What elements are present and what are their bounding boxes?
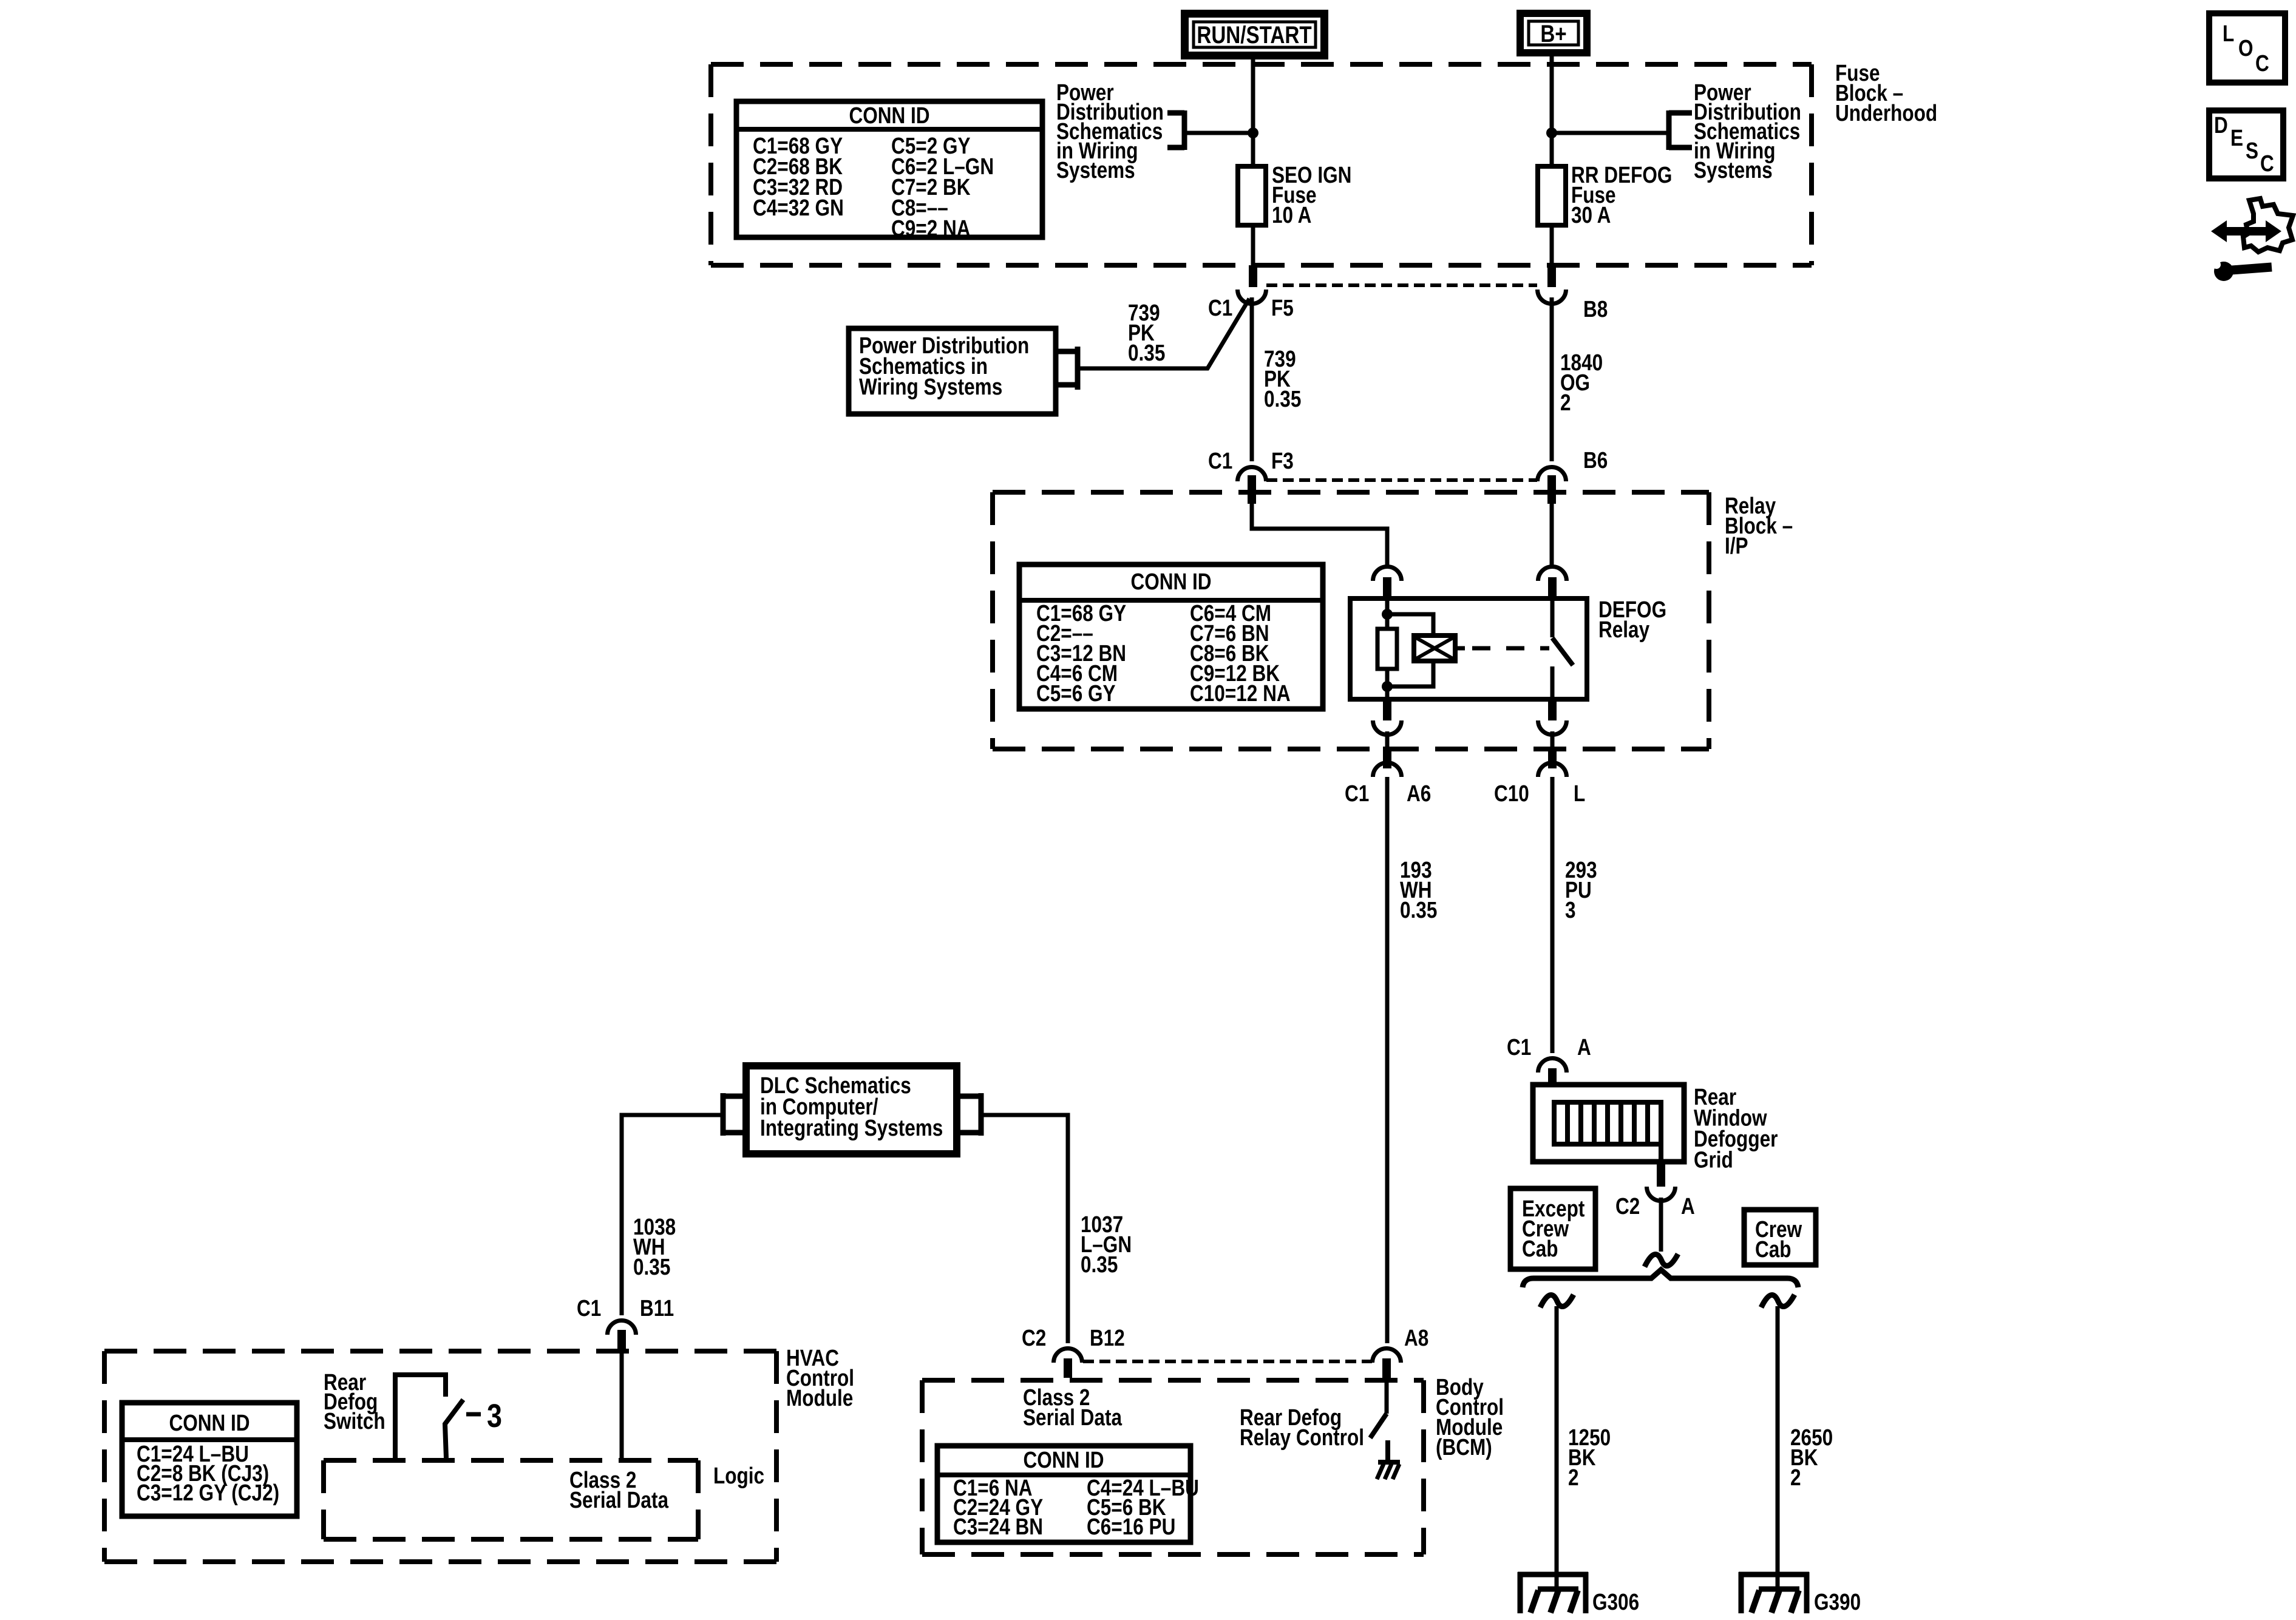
label Body Control Module (BCM) (1436, 1374, 1504, 1460)
svg-text:Wiring Systems: Wiring Systems (859, 374, 1002, 399)
DESC box (2209, 110, 2283, 178)
junction dot right (1546, 127, 1557, 138)
wire 1037 L-GN 0.35 (981, 1115, 1068, 1343)
relay block CONN ID table (1019, 564, 1323, 709)
box DLC Schematics in Computer/Integrating Systems (746, 1066, 957, 1154)
svg-text:A: A (1681, 1193, 1695, 1219)
BCM switch blade (1370, 1414, 1387, 1438)
svg-text:0.35: 0.35 (1264, 386, 1301, 412)
relay coil (box with X) (1414, 635, 1455, 661)
label C1 / A (1507, 1034, 1591, 1060)
svg-text:C1: C1 (1208, 295, 1232, 320)
wire 1250 BK 2 (1555, 1306, 1559, 1589)
junction dot relay bottom (1382, 681, 1393, 692)
wire 293 PU 3 (1550, 777, 1555, 1053)
wire 739 PK branch (horizontal + diagonal) (1078, 299, 1249, 368)
label C1 / A6 (1345, 781, 1431, 806)
label G390 (1814, 1589, 1861, 1615)
svg-text:Serial Data: Serial Data (569, 1487, 669, 1513)
wire relay 85 to block edge (1385, 731, 1390, 748)
relay pin 87 connector (cup) (1538, 699, 1567, 734)
connector C10 L (dome) (1538, 747, 1567, 777)
svg-text:B11: B11 (640, 1295, 674, 1321)
label Power Distribution Schematics in Wiring Systems (right) (1694, 80, 1801, 183)
svg-text:CONN ID: CONN ID (1023, 1447, 1104, 1473)
svg-text:C1: C1 (1345, 781, 1369, 806)
alternatives brace (1523, 1270, 1798, 1287)
fuse block CONN ID table (736, 101, 1042, 242)
bracket left of DLC box (723, 1093, 746, 1136)
label Logic (713, 1463, 764, 1488)
svg-text:C3=12 GY (CJ2): C3=12 GY (CJ2) (137, 1480, 279, 1505)
svg-text:3: 3 (487, 1397, 502, 1434)
label 739 PK 0.35 (1264, 346, 1301, 412)
svg-text:3: 3 (1565, 897, 1576, 923)
label Rear Defog Switch (324, 1369, 385, 1434)
svg-text:E: E (2230, 125, 2243, 151)
svg-text:2: 2 (1790, 1465, 1801, 1490)
dashed actuator link (1455, 646, 1549, 651)
wire 739 PK 0.35 vertical (1250, 297, 1254, 461)
connector C2 A (cup) (1647, 1159, 1676, 1201)
connector B8 (cup) (1538, 290, 1566, 304)
connector C1 A6 (dome) (1373, 747, 1402, 777)
svg-text:B12: B12 (1090, 1325, 1125, 1351)
wire A8 to relay control switch (1385, 1378, 1389, 1414)
svg-text:Underhood: Underhood (1835, 100, 1937, 126)
wire RUN/START down to SEO IGN fuse (1251, 57, 1255, 169)
label 739 PK 0.35 (branch) (1128, 300, 1165, 365)
wire relay 87 to block edge (1550, 731, 1555, 748)
HVAC control module dashed box (104, 1351, 776, 1562)
svg-text:F3: F3 (1271, 448, 1294, 473)
svg-text:B8: B8 (1583, 296, 1608, 322)
power rail RUN/START (1181, 10, 1328, 59)
relay coil branch wires (1387, 601, 1433, 699)
svg-text:Logic: Logic (713, 1463, 764, 1488)
label C1 / B11 (577, 1295, 674, 1321)
svg-text:C6=16 PU: C6=16 PU (1087, 1514, 1175, 1539)
wire B+ down to RR DEFOG fuse (1550, 56, 1554, 169)
svg-text:0.35: 0.35 (633, 1254, 670, 1279)
label B8 (1583, 296, 1608, 322)
svg-text:C10=12 NA: C10=12 NA (1190, 680, 1291, 706)
svg-text:0.35: 0.35 (1400, 897, 1437, 923)
BCM internal ground (1377, 1440, 1400, 1479)
svg-text:L: L (1574, 781, 1585, 806)
label Relay Block - I/P (1725, 493, 1793, 558)
label A8 (1404, 1325, 1428, 1351)
wire F3 to relay coil input (1252, 504, 1387, 569)
label Fuse Block - Underhood (1835, 60, 1937, 126)
svg-text:Grid: Grid (1694, 1147, 1733, 1173)
wire 2650 BK 2 (1776, 1306, 1780, 1589)
svg-text:L: L (2223, 21, 2234, 46)
ground G306 (1518, 1572, 1588, 1613)
wire 1840 OG 2 vertical (1550, 297, 1554, 461)
fuse SEO IGN 10A (1238, 166, 1266, 225)
svg-text:30 A: 30 A (1571, 202, 1611, 228)
svg-text:O: O (2238, 35, 2254, 61)
wire fuse to connector C1 F5 (1249, 225, 1257, 287)
svg-text:Relay Control: Relay Control (1240, 1425, 1364, 1450)
svg-text:CONN ID: CONN ID (849, 103, 929, 128)
svg-text:CONN ID: CONN ID (1130, 569, 1211, 594)
svg-text:B+: B+ (1540, 20, 1566, 47)
svg-text:A8: A8 (1404, 1325, 1428, 1351)
wire 193 WH 0.35 (1385, 777, 1390, 1343)
svg-text:10 A: 10 A (1272, 202, 1311, 228)
label 193 WH 0.35 (1400, 857, 1437, 923)
svg-text:C1: C1 (577, 1295, 601, 1321)
label Rear Window Defogger Grid (1694, 1084, 1778, 1173)
svg-text:CONN ID: CONN ID (169, 1410, 250, 1435)
label Power Distribution Schematics in Wiring Systems (left) (1056, 80, 1164, 183)
LOC box (2209, 13, 2285, 83)
svg-text:D: D (2214, 112, 2228, 138)
svg-text:C9=2 NA: C9=2 NA (891, 215, 971, 241)
svg-text:C10: C10 (1494, 781, 1529, 806)
wire from left bracket to RUN/START feed (1184, 131, 1253, 135)
svg-text:G390: G390 (1814, 1589, 1861, 1615)
dotted connector line B12-A8 (1083, 1360, 1372, 1363)
label 1037 L-GN 0.35 (1081, 1212, 1132, 1277)
connector C1 A (dome) (1538, 1059, 1567, 1088)
svg-text:Systems: Systems (1056, 157, 1135, 183)
resistor in relay (1377, 629, 1397, 669)
svg-text:2: 2 (1568, 1465, 1579, 1490)
wire break squiggle right (1761, 1295, 1795, 1307)
power rail B+ (1517, 10, 1591, 56)
svg-text:C1: C1 (1507, 1034, 1531, 1060)
bracket to left label (1167, 110, 1184, 150)
connector C1 F5 (cup) (1238, 290, 1266, 304)
navigation icon (arrow + outline + wrench) (2211, 198, 2293, 281)
wire from B+ feed to right bracket (1552, 131, 1669, 135)
svg-text:C1: C1 (1208, 448, 1232, 473)
svg-text:C: C (2260, 151, 2274, 176)
label 1840 OG 2 (1560, 350, 1603, 415)
rear defog switch symbol (395, 1375, 502, 1458)
junction dot relay top (1382, 609, 1393, 620)
bracket right of DLC box (957, 1093, 981, 1136)
svg-text:Systems: Systems (1694, 157, 1773, 183)
ground G390 (1739, 1572, 1809, 1613)
svg-text:G306: G306 (1592, 1589, 1639, 1615)
label 293 PU 3 (1565, 857, 1597, 923)
svg-text:A6: A6 (1407, 781, 1431, 806)
svg-text:S: S (2246, 138, 2258, 163)
wire 1038 WH 0.35 (622, 1115, 723, 1315)
svg-text:0.35: 0.35 (1128, 340, 1165, 365)
HVAC CONN ID table (122, 1403, 297, 1516)
connector B6 (dome) (1538, 467, 1566, 504)
fuse RR DEFOG 30A (1538, 166, 1566, 225)
connector C2 B12 (dome) (1054, 1349, 1082, 1378)
dotted connector line F5-B8 (1266, 283, 1537, 287)
svg-text:C5=6 GY: C5=6 GY (1036, 680, 1116, 706)
relay switch contact (1552, 601, 1573, 699)
wire to break (1659, 1198, 1663, 1252)
svg-text:(BCM): (BCM) (1436, 1434, 1492, 1460)
label C2 / A (1615, 1193, 1695, 1219)
label C10 / L (1494, 781, 1585, 806)
relay pin 30 connector (dome) (1538, 567, 1567, 601)
label C1 / F3 (1208, 448, 1294, 473)
label Rear Defog Relay Control (1240, 1405, 1364, 1450)
relay pin 86 connector (dome) (1373, 567, 1402, 601)
label Class 2 Serial Data (HVAC) (569, 1467, 669, 1513)
label HVAC Control Module (786, 1345, 854, 1411)
dotted connector line F3-B6 (1266, 478, 1537, 482)
label 1250 BK 2 (1568, 1425, 1611, 1490)
wire break squiggle (1645, 1254, 1678, 1267)
label DEFOG Relay (1598, 597, 1666, 642)
BCM CONN ID table (937, 1446, 1199, 1542)
svg-text:Integrating Systems: Integrating Systems (760, 1115, 943, 1140)
bracket on PDS box (1056, 347, 1078, 390)
wire fuse to connector B8 (1547, 225, 1556, 287)
svg-text:Cab: Cab (1522, 1236, 1558, 1261)
wire B6 to relay switch input (1550, 504, 1554, 569)
svg-text:Serial Data: Serial Data (1023, 1405, 1123, 1430)
connector A8 (dome) (1373, 1349, 1401, 1378)
box Crew Cab (1744, 1210, 1816, 1265)
bracket to right label (1669, 110, 1692, 150)
class 2 serial data dashed box (324, 1460, 698, 1539)
label RR DEFOG Fuse 30 A (1571, 162, 1672, 228)
svg-text:I/P: I/P (1725, 533, 1748, 558)
svg-text:C: C (2255, 50, 2269, 76)
box Power Distribution Schematics in Wiring Systems (849, 328, 1056, 414)
label G306 (1592, 1589, 1639, 1615)
svg-text:C4=32 GN: C4=32 GN (753, 195, 844, 220)
fuse block underhood dashed box (711, 64, 1812, 265)
relay pin 85 connector (cup) (1373, 699, 1402, 734)
label 1038 WH 0.35 (633, 1214, 676, 1279)
label C1 / F5 (1208, 295, 1294, 320)
svg-text:Relay: Relay (1598, 617, 1650, 642)
svg-text:2: 2 (1560, 390, 1571, 415)
label Class 2 Serial Data (BCM) (1023, 1384, 1123, 1430)
label C2 / B12 (1022, 1325, 1125, 1351)
svg-text:Cab: Cab (1755, 1236, 1792, 1262)
svg-text:F5: F5 (1271, 295, 1294, 320)
wire break squiggle left (1540, 1295, 1574, 1307)
svg-text:C2: C2 (1022, 1325, 1046, 1351)
svg-text:Module: Module (786, 1385, 853, 1411)
wire B11 into logic (620, 1352, 624, 1460)
relay block I/P dashed box (993, 492, 1709, 749)
svg-text:0.35: 0.35 (1081, 1252, 1118, 1277)
svg-text:B6: B6 (1583, 447, 1608, 473)
connector C1 B11 (dome) (608, 1321, 636, 1352)
label B6 (1583, 447, 1608, 473)
rear window defogger grid (1533, 1085, 1684, 1162)
svg-text:A: A (1577, 1034, 1591, 1060)
label SEO IGN Fuse 10 A (1272, 162, 1351, 228)
label 2650 BK 2 (1790, 1425, 1833, 1490)
BCM dashed box (922, 1380, 1424, 1554)
svg-text:C2: C2 (1615, 1193, 1640, 1219)
svg-text:C3=24 BN: C3=24 BN (953, 1514, 1043, 1539)
connector C1 F3 (dome) (1238, 467, 1266, 504)
svg-text:RUN/START: RUN/START (1197, 21, 1312, 49)
relay DEFOG box (1350, 598, 1587, 699)
junction dot left (1248, 127, 1258, 138)
box Except Crew Cab (1510, 1188, 1595, 1269)
svg-text:Switch: Switch (324, 1408, 385, 1434)
